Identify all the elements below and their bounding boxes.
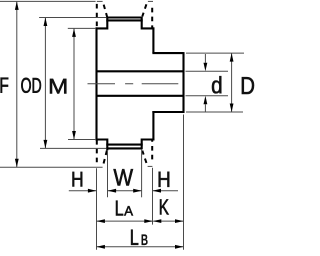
arrow F bottom	[15, 159, 19, 168]
top step left (M shoulder)	[96, 18, 108, 29]
dimension line LA (row 2)	[97, 220, 153, 222]
extension line D (body right, down)	[152, 168, 154, 225]
extension line M top	[68, 27, 96, 29]
tooth bottom outer line (OD)	[106, 147, 141, 149]
dimension line W (row 1)	[108, 190, 141, 192]
flange hidden line top-right vertical	[151, 8, 153, 29]
dimension line H left (row 1)	[69, 190, 96, 192]
dimension line H right (row 1)	[153, 190, 178, 192]
arrow LB right (pointing right)	[175, 245, 184, 249]
extension line C (tooth right, down)	[141, 150, 143, 198]
tooth bottom inner line	[106, 144, 142, 146]
arrow W right (pointing right)	[133, 189, 142, 193]
dimension line F	[16, 2, 18, 167]
dimension line OD	[44, 18, 46, 149]
flange hidden line top-right slant	[142, 4, 146, 16]
flange bottom-right edge	[148, 165, 153, 167]
extension line M bottom	[68, 139, 96, 141]
extension line F bottom (flange bottom edge)	[0, 166, 103, 168]
extension line E (hub right, down)	[183, 115, 185, 250]
hub right edge	[182, 52, 184, 113]
bore top line	[97, 70, 184, 72]
label OD	[21, 78, 41, 93]
arrow K left (pointing left)	[153, 219, 162, 223]
dimension line M	[73, 29, 75, 140]
bottom step left	[96, 140, 108, 151]
extension line bore bottom	[186, 95, 229, 97]
arrow OD bottom	[44, 140, 48, 149]
arrow F top	[15, 1, 19, 10]
arrow W left (pointing left)	[108, 189, 117, 193]
extension line A (body left, down)	[96, 168, 98, 250]
arrow LA right (pointing right)	[144, 219, 153, 223]
arrow LA left (pointing left)	[96, 219, 105, 223]
extension line hub bottom	[186, 111, 243, 113]
flange hidden line top-left vertical	[96, 4, 98, 29]
arrow K right (pointing right)	[175, 219, 184, 223]
label F	[1, 78, 9, 93]
extension line B (tooth left, down)	[107, 150, 109, 197]
arrow OD top	[44, 18, 48, 27]
dimension line K (row 2)	[153, 220, 183, 222]
flange hidden line bottom-left slant	[104, 149, 108, 164]
arrow D top	[230, 53, 234, 62]
extension line F top	[0, 0, 96, 2]
pulley body right edge lower	[152, 111, 154, 141]
label H left	[73, 172, 83, 187]
tooth top outer line (OD)	[106, 16, 141, 18]
dimension line d (outside arrows)	[204, 54, 206, 112]
arrow M top	[72, 28, 76, 37]
flange hidden line top-left slant	[104, 5, 108, 18]
flange top-left edge	[97, 0, 103, 2]
dimension line D	[231, 53, 233, 112]
label D	[242, 77, 254, 94]
flange top-right edge	[148, 0, 153, 2]
label M	[50, 79, 66, 94]
pulley body right edge upper	[152, 27, 154, 53]
arrow M bottom	[72, 131, 76, 140]
flange hidden line bottom-right slant	[142, 151, 146, 163]
label W	[114, 169, 134, 185]
flange hidden line bottom-left vertical	[96, 140, 98, 166]
pulley body left edge	[95, 27, 97, 140]
extension line OD top	[39, 17, 106, 19]
arrow d top (pointing down at bore top)	[204, 63, 208, 72]
arrow LB left (pointing left)	[96, 245, 105, 249]
label L of LA	[116, 201, 123, 216]
arrow D bottom	[230, 104, 234, 113]
bottom step right	[142, 140, 155, 150]
flange hidden line bottom-right vertical	[151, 140, 153, 159]
label H right	[159, 172, 170, 187]
extension line hub top	[186, 52, 244, 54]
extension line OD bottom	[40, 147, 107, 149]
tooth top inner line	[106, 19, 142, 21]
arrow d bottom (pointing up at bore bottom)	[204, 96, 208, 105]
label d	[212, 76, 221, 93]
extension line bore top	[186, 70, 229, 72]
top step right	[142, 17, 155, 29]
arrow H right (pointing left)	[153, 189, 162, 193]
subscript B	[142, 235, 148, 245]
hub top line	[152, 52, 183, 54]
bore bottom line	[97, 95, 184, 97]
label K	[160, 199, 169, 214]
centerline	[88, 83, 179, 85]
arrow H left (pointing right)	[88, 189, 97, 193]
subscript A	[124, 206, 133, 215]
hub bottom line	[152, 111, 183, 113]
label L of LB	[131, 230, 138, 245]
dimension line LB (row 3)	[97, 246, 183, 248]
